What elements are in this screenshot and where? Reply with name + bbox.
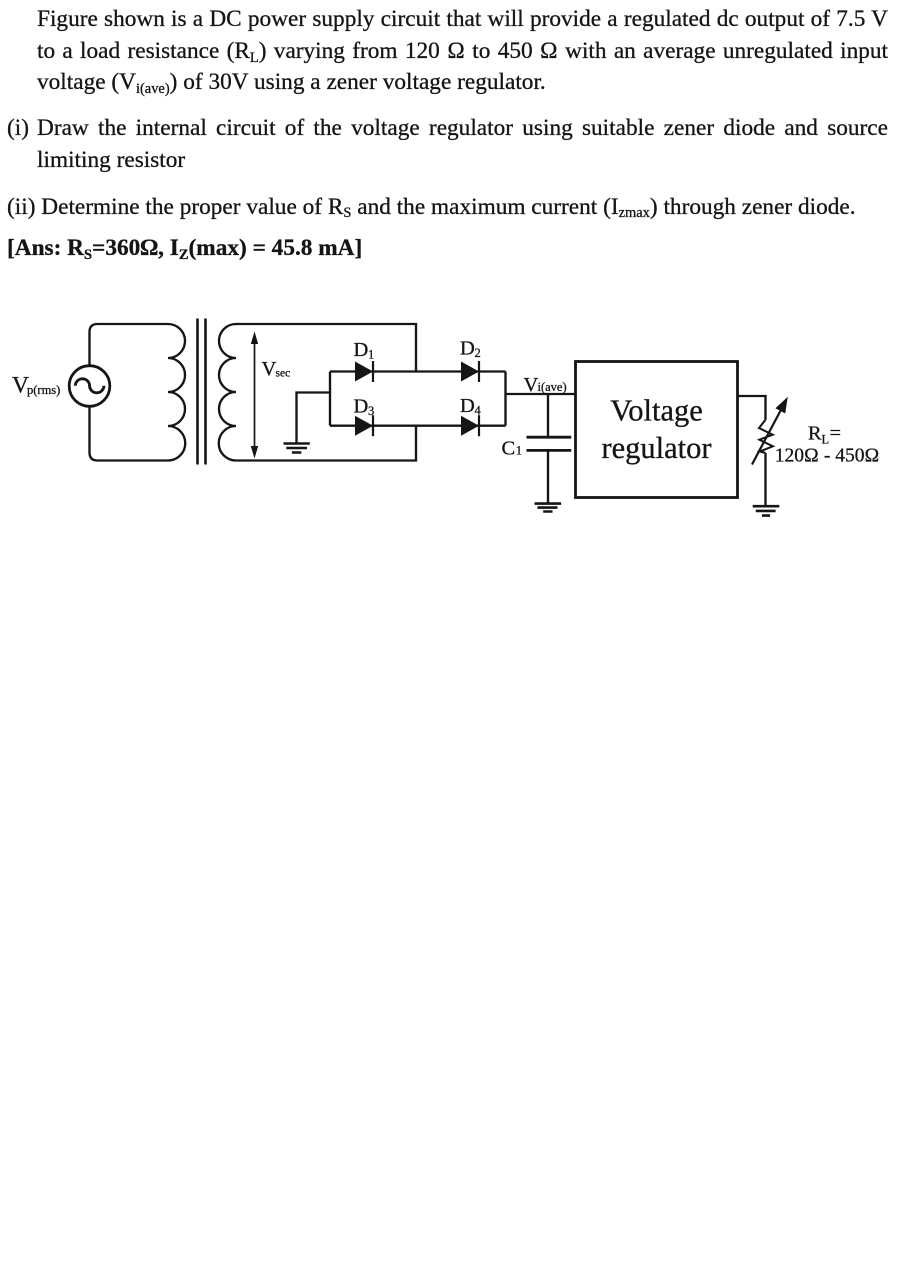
capacitor C1 plates bbox=[527, 437, 572, 450]
wire: bridge bottom rail (D3, D4 branch) bbox=[330, 425, 506, 427]
label D3 bbox=[354, 396, 375, 419]
svg-text:Voltage: Voltage bbox=[610, 394, 703, 428]
label D4 bbox=[460, 395, 482, 418]
voltage regulator block U1 bbox=[576, 362, 738, 498]
resistor R_L zigzag bbox=[759, 420, 773, 453]
svg-text:2: 2 bbox=[475, 346, 481, 360]
wire: node to capacitor C1 bbox=[547, 394, 549, 437]
ground (transformer) bbox=[284, 444, 310, 453]
svg-text:4: 4 bbox=[475, 404, 482, 418]
wire: R_L to ground bbox=[764, 453, 766, 505]
transformer T1 secondary winding bbox=[219, 324, 236, 461]
wire: secondary bottom to D3-D4 junction bbox=[236, 426, 416, 461]
wire: primary loop bottom bbox=[90, 406, 169, 460]
label D1 bbox=[354, 339, 375, 362]
wire: regulator output to load R_L bbox=[738, 396, 766, 420]
transformer T1 core bbox=[198, 319, 206, 465]
svg-text:L: L bbox=[822, 433, 830, 447]
label R_L = bbox=[808, 423, 841, 447]
transformer T1 primary winding bbox=[168, 324, 185, 461]
variable resistor arrow head bbox=[775, 397, 787, 414]
label: Voltage regulator bbox=[601, 394, 711, 466]
V_sec measurement arrow bbox=[251, 332, 258, 459]
wire: capacitor C1 to ground bbox=[547, 450, 549, 503]
label V_sec bbox=[262, 358, 291, 380]
svg-text:V: V bbox=[262, 358, 277, 380]
wire: bridge left bracket bbox=[329, 372, 331, 426]
svg-text:R: R bbox=[808, 423, 822, 445]
svg-text:=: = bbox=[830, 423, 842, 445]
diode D3 bbox=[355, 415, 373, 436]
svg-text:120Ω - 450Ω: 120Ω - 450Ω bbox=[775, 446, 880, 467]
wire: output node V_i(ave) to regulator bbox=[506, 393, 576, 395]
label C1 bbox=[502, 438, 523, 460]
svg-text:p(rms): p(rms) bbox=[27, 383, 60, 397]
wire: bridge top rail (D1, D2 branch) bbox=[330, 370, 506, 372]
svg-text:D: D bbox=[460, 338, 475, 360]
wire: primary loop top bbox=[90, 324, 169, 366]
svg-text:regulator: regulator bbox=[601, 431, 711, 465]
diode D4 bbox=[461, 415, 479, 436]
label node V_i(ave) bbox=[524, 374, 567, 396]
svg-text:3: 3 bbox=[368, 404, 374, 418]
svg-text:C: C bbox=[502, 438, 516, 460]
variable resistor arrow shaft bbox=[752, 406, 783, 465]
wire: bridge right bracket bbox=[504, 372, 506, 426]
wire: secondary top to D1-D2 junction bbox=[236, 324, 416, 372]
svg-text:1: 1 bbox=[368, 348, 374, 362]
wire: center tap to ground bbox=[297, 393, 331, 444]
label D2 bbox=[460, 338, 481, 361]
ground (C1) bbox=[535, 504, 562, 512]
svg-text:i(ave): i(ave) bbox=[538, 380, 567, 394]
svg-text:D: D bbox=[354, 396, 369, 418]
label V_p(rms) bbox=[12, 373, 60, 399]
svg-text:V: V bbox=[524, 374, 539, 396]
diode D1 bbox=[355, 361, 373, 382]
svg-text:1: 1 bbox=[516, 444, 522, 458]
svg-text:D: D bbox=[460, 395, 475, 417]
svg-text:sec: sec bbox=[276, 368, 291, 380]
svg-text:D: D bbox=[354, 339, 369, 361]
ground (R_L) bbox=[753, 506, 780, 515]
diode D2 bbox=[461, 361, 479, 382]
AC source V_p(rms) bbox=[69, 366, 110, 407]
